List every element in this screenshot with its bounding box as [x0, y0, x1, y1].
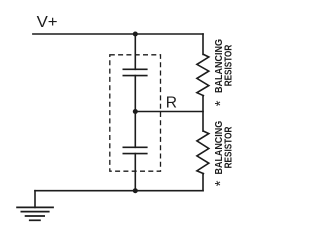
- svg-text:*: *: [212, 180, 229, 186]
- svg-text:R: R: [166, 95, 177, 112]
- wire: bottom return rail: [35, 190, 203, 192]
- wire: node R horizontal tap: [135, 111, 203, 113]
- svg-text:RESISTOR: RESISTOR: [224, 126, 235, 168]
- resistor R-balance-1 (zigzag): [197, 54, 209, 95]
- wire: resistor 2 bottom lead: [202, 174, 204, 191]
- dashed enclosure box around capacitors: [110, 55, 161, 171]
- wire: ground drop: [34, 191, 36, 208]
- ground symbol (earth): [16, 207, 54, 220]
- wire: capacitor branch top lead: [134, 34, 136, 69]
- svg-text:RESISTOR: RESISTOR: [224, 44, 235, 86]
- svg-text:V+: V+: [37, 14, 58, 31]
- resistor R-balance-2 (zigzag): [197, 131, 209, 174]
- junction dot: top node: [133, 32, 138, 37]
- wire: capacitor midsection (C1 to C2): [134, 76, 136, 148]
- capacitor C1 bottom plate: [123, 75, 147, 77]
- capacitor C1 top plate: [123, 68, 147, 70]
- junction dot: bottom node: [133, 188, 138, 193]
- wire: between resistor 1 and resistor 2: [202, 96, 204, 132]
- svg-text:*: *: [212, 100, 229, 106]
- wire: right branch vertical (top lead to resistor 1): [202, 34, 204, 54]
- wire: capacitor branch bottom lead: [134, 154, 136, 191]
- junction dot: node R tap: [133, 109, 138, 114]
- wire: top V+ rail: [33, 33, 203, 35]
- capacitor C2 bottom plate: [123, 153, 147, 155]
- capacitor C2 top plate: [123, 146, 147, 148]
